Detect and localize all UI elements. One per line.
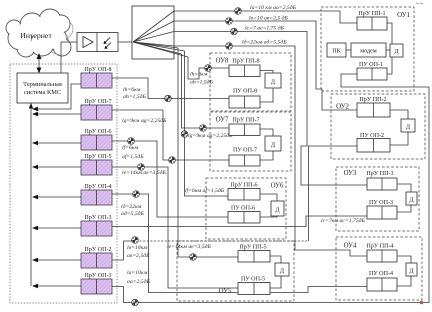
- wire PP-4 to D: [397, 256, 411, 263]
- fiber h return: [112, 78, 229, 99]
- svg-text:lд=22км ад=5,5дБ: lд=22км ад=5,5дБ: [242, 39, 287, 46]
- wire OP-2 to D: [390, 132, 408, 145]
- svg-text:ПрУ ПП-8: ПрУ ПП-8: [232, 59, 259, 65]
- splice a return: [132, 299, 139, 306]
- fiber f forward: [185, 51, 229, 196]
- svg-text:lh=6км: lh=6км: [123, 87, 141, 93]
- fiber b forward: [174, 21, 357, 110]
- svg-text:ПрУ ПП-3: ПрУ ПП-3: [366, 171, 393, 177]
- orange dot bottom right: [420, 301, 424, 305]
- splice f mid: [181, 131, 188, 138]
- splice a forward: [235, 8, 242, 15]
- svg-text:ПУ ОП-1: ПУ ОП-1: [359, 62, 383, 68]
- svg-text:lа=10км: lа=10км: [127, 270, 148, 276]
- fiber e forward: [178, 48, 238, 257]
- wire PP-8 to D: [260, 71, 273, 74]
- splitter box: [132, 6, 174, 59]
- wire fan f: [133, 42, 185, 51]
- wire OP-7 to bus: [32, 112, 81, 116]
- page artifact top right: [416, 3, 423, 4]
- svg-text:lf=6км: lf=6км: [122, 144, 139, 151]
- wire fan b: [133, 21, 174, 42]
- svg-text:ПрУ ПП-1: ПрУ ПП-1: [358, 11, 385, 17]
- D unit OU6: [271, 201, 284, 216]
- wire PP-7 to D: [260, 129, 273, 136]
- splice c forward: [231, 28, 238, 35]
- transmitter U1 (amp + LED): [77, 33, 118, 52]
- fiber b return: [112, 241, 136, 260]
- wire OP-7 to D: [260, 151, 273, 160]
- svg-text:lg=9км аg=2,25дБ: lg=9км аg=2,25дБ: [122, 117, 167, 124]
- svg-text:ПрУ ОП-7: ПрУ ОП-7: [84, 99, 111, 105]
- OU5 dashed box: [177, 241, 294, 301]
- OU7 dashed box: [210, 112, 291, 171]
- svg-text:ОУ4: ОУ4: [344, 243, 357, 250]
- wire PP-1 to D: [387, 23, 392, 44]
- wire OP-1 to bus: [32, 284, 81, 288]
- wire OP-1 to D: [387, 57, 392, 74]
- splice e return: [138, 164, 145, 171]
- svg-text:ОУ6: ОУ6: [271, 183, 284, 190]
- svg-text:ПрУ ПП-5: ПрУ ПП-5: [239, 245, 266, 251]
- wire OP-3 to bus: [32, 226, 81, 230]
- wire PP-5 to D: [270, 256, 281, 263]
- svg-text:модем: модем: [360, 49, 377, 55]
- svg-text:lе=14км ае=3,5дБ: lе=14км ае=3,5дБ: [122, 169, 167, 176]
- D unit OU3: [406, 192, 417, 205]
- fiber g return: [112, 110, 229, 160]
- wire OP-6 to D: [260, 216, 277, 217]
- wire OP-8 to bus: [32, 84, 81, 111]
- fiber a forward: [174, 11, 357, 23]
- wire OP-2 to bus: [32, 258, 81, 262]
- cloud Интернет: [6, 9, 73, 57]
- svg-text:ПрУ ОП-3: ПрУ ОП-3: [84, 215, 111, 221]
- splice b forward: [226, 18, 233, 25]
- svg-text:ПрУ ПП-4: ПрУ ПП-4: [366, 244, 393, 250]
- arrow up into KMC: [29, 103, 33, 109]
- wire OP-4 to D: [397, 276, 411, 286]
- wire fan g: [133, 42, 182, 54]
- svg-text:lв=10 ав=2,5 дБ: lв=10 ав=2,5 дБ: [249, 15, 289, 22]
- svg-text:ОУ3: ОУ3: [344, 170, 357, 177]
- splice d forward: [226, 43, 233, 50]
- svg-text:ПУ ОП-5: ПУ ОП-5: [241, 277, 265, 283]
- svg-text:ПрУ ОП-5: ПрУ ОП-5: [84, 154, 111, 160]
- OU3 dashed box: [336, 167, 419, 231]
- splice g forward: [200, 125, 207, 132]
- KMC box: [17, 73, 68, 103]
- svg-text:la=10 км аа=2,5дБ: la=10 км аа=2,5дБ: [250, 4, 297, 11]
- svg-text:ОУ7: ОУ7: [216, 117, 229, 124]
- fiber e return: [112, 167, 238, 288]
- svg-text:Терминальная: Терминальная: [23, 81, 62, 88]
- svg-text:аf=1,5дБ: аf=1,5дБ: [122, 153, 144, 160]
- svg-text:ПрУ ПП-7: ПрУ ПП-7: [232, 118, 259, 124]
- svg-text:ПрУ ОП-8: ПрУ ОП-8: [84, 67, 111, 73]
- splice b return: [132, 237, 139, 244]
- OU4 dashed box: [336, 237, 422, 300]
- svg-text:lе=14км ае=3,5дБ: lе=14км ае=3,5дБ: [167, 243, 212, 250]
- svg-text:аh=1,5дБ: аh=1,5дБ: [123, 93, 147, 100]
- PC unit: [327, 43, 346, 57]
- fiber g forward: [182, 54, 230, 128]
- D unit OU5: [275, 263, 289, 276]
- wire fan d: [133, 42, 174, 46]
- wire OP-6 to bus: [32, 141, 81, 145]
- svg-text:ПрУ ОП-1: ПрУ ОП-1: [84, 273, 111, 279]
- svg-text:ПУ ОП-8: ПУ ОП-8: [233, 89, 257, 95]
- OU1 dashed box: [321, 7, 414, 91]
- svg-text:ПрУ ОП-2: ПрУ ОП-2: [84, 247, 111, 253]
- wire OP-8 to D: [260, 88, 273, 102]
- splice d return: [133, 191, 140, 198]
- D unit OU1: [390, 44, 403, 57]
- splice f return: [128, 138, 135, 145]
- svg-text:lg=9км аg=2,25дБ: lg=9км аg=2,25дБ: [188, 132, 233, 139]
- OU8 dashed box: [210, 53, 291, 111]
- svg-text:ПрУ ПП-2: ПрУ ПП-2: [359, 97, 386, 103]
- svg-text:ОУ1: ОУ1: [397, 12, 410, 19]
- svg-text:ОУ5: ОУ5: [219, 288, 232, 295]
- D unit OU8: [265, 73, 281, 88]
- fiber d forward: [174, 46, 367, 256]
- wire OP-3 to D: [397, 205, 411, 212]
- svg-text:lс=7км ас=1,75дБ: lс=7км ас=1,75дБ: [321, 217, 366, 224]
- splice h return: [165, 95, 172, 102]
- D unit OU4: [406, 263, 417, 276]
- svg-text:ПУ ОП-3: ПУ ОП-3: [369, 200, 393, 206]
- wire cloud to transmitter: [61, 41, 77, 43]
- D unit OU2: [401, 119, 415, 132]
- wire modem to D: [386, 49, 390, 51]
- wire fan h: [133, 42, 188, 57]
- svg-text:lв=10км: lв=10км: [127, 245, 147, 251]
- svg-text:ПрУ ОП-4: ПрУ ОП-4: [84, 184, 111, 190]
- svg-text:ПрУ ОП-6: ПрУ ОП-6: [84, 129, 111, 135]
- wire PP-3 to D: [397, 184, 411, 192]
- svg-text:Интернет: Интернет: [20, 31, 52, 40]
- svg-text:ПУ ОП-7: ПУ ОП-7: [233, 148, 257, 154]
- OU2 dashed box: [331, 94, 425, 159]
- svg-text:ПУ ОП-4: ПУ ОП-4: [369, 271, 393, 277]
- left terminal dashed box: [10, 64, 117, 303]
- wire OP-4 to bus: [32, 195, 81, 199]
- fiber d return: [112, 194, 367, 293]
- wire OP-5 to D: [270, 276, 281, 288]
- svg-text:ПК: ПК: [332, 49, 341, 55]
- svg-text:lf=6км аf=1,5дБ: lf=6км аf=1,5дБ: [185, 187, 225, 194]
- splice g return: [169, 157, 176, 164]
- fiber c forward: [174, 32, 367, 186]
- svg-text:ПрУ ПП-6: ПрУ ПП-6: [230, 183, 257, 189]
- wire junction down to KMC box: [60, 42, 62, 73]
- svg-text:ПУ ОП-6: ПУ ОП-6: [231, 206, 255, 212]
- bus vertical: [30, 103, 32, 286]
- fiber f return: [112, 141, 228, 217]
- svg-text:ав=2,5дБ: ав=2,5дБ: [127, 252, 150, 259]
- D unit OU7: [265, 136, 281, 151]
- double arrow cloud to KMC: [37, 53, 42, 74]
- svg-text:система КМС: система КМС: [24, 89, 61, 96]
- svg-text:ад=5,5дБ: ад=5,5дБ: [121, 210, 145, 217]
- wire OP-5 to bus: [32, 165, 81, 169]
- svg-text:аа=2,5дБ: аа=2,5дБ: [127, 278, 151, 285]
- fiber h forward: [188, 57, 229, 79]
- wire PK to modem: [346, 49, 351, 51]
- wire transmitter to splitter: [118, 41, 133, 43]
- fiber c return: [112, 216, 367, 227]
- svg-text:lh=6км: lh=6км: [190, 72, 208, 78]
- splice e forward: [190, 254, 197, 261]
- wire fan e: [133, 42, 178, 48]
- splice h forward: [205, 65, 212, 72]
- svg-text:lд=22км: lд=22км: [121, 203, 142, 210]
- wire fan c: [133, 32, 174, 43]
- svg-text:lс=7 ас=1,75 дБ: lс=7 ас=1,75 дБ: [245, 25, 285, 32]
- modem: [351, 43, 386, 57]
- fiber a return: [112, 74, 429, 303]
- wire PP-2 to D: [390, 110, 408, 119]
- svg-text:ОУ2: ОУ2: [336, 104, 349, 111]
- wire fan a: [133, 11, 174, 42]
- OU6 dashed box: [206, 178, 286, 239]
- svg-text:ОУ8: ОУ8: [216, 58, 229, 65]
- wire PP-6 to D: [260, 194, 277, 201]
